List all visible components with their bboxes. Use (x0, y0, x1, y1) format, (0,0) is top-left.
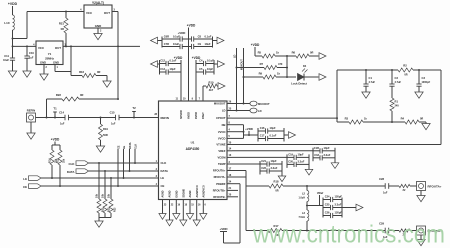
wire MUXOUT vertical (241, 48, 245, 105)
ground pulldowns (95, 221, 103, 227)
ground pin SDGND (180, 189, 188, 226)
svg-text:+VDD: +VDD (51, 138, 60, 142)
svg-text:C11: C11 (4, 54, 9, 58)
capacitor C11 left decoupling (3, 54, 15, 71)
svg-text:U1: U1 (191, 141, 195, 145)
oscillator Y2 (ALT) (80, 1, 115, 33)
svg-text:R14: R14 (49, 158, 52, 163)
svg-text:RSET: RSET (202, 112, 205, 119)
svg-text:+VDD: +VDD (178, 31, 186, 35)
resistor R22 0R bypass (46, 93, 120, 119)
IC U1 ADF4350 (154, 98, 232, 200)
svg-text:C21: C21 (261, 159, 266, 163)
svg-text:50R: 50R (103, 133, 108, 137)
node stub CLK label (134, 144, 137, 164)
svg-text:AGND: AGND (162, 190, 165, 197)
svg-text:C1: C1 (369, 76, 373, 80)
svg-text:VCC: VCC (38, 46, 45, 50)
svg-text:10pF: 10pF (271, 159, 277, 163)
wire loop filter to VTUNE (232, 70, 441, 145)
svg-text:AGND: AGND (189, 190, 192, 197)
svg-text:SDVDD: SDVDD (180, 110, 183, 119)
svg-text:1.0uH: 1.0uH (298, 197, 305, 200)
power +VDD bypass rail A (178, 24, 196, 102)
ground under REFIN connector (27, 122, 35, 139)
capacitor C10 (24, 46, 34, 71)
svg-text:10k: 10k (96, 193, 99, 198)
resistor R6 (287, 51, 319, 59)
svg-text:10pF: 10pF (207, 67, 213, 71)
svg-text:C15: C15 (110, 111, 115, 115)
svg-text:120pF: 120pF (335, 195, 343, 199)
wire RFOUTB+ stub (232, 189, 238, 191)
svg-text:R5: R5 (258, 51, 262, 55)
svg-text:10k: 10k (63, 158, 66, 163)
svg-text:470: 470 (278, 62, 283, 66)
wire CE (41, 185, 159, 187)
svg-text:VTUNE: VTUNE (216, 143, 225, 147)
svg-text:RFOUTA+: RFOUTA+ (213, 169, 226, 173)
ground pin AGNDVCO (200, 185, 207, 219)
svg-text:0R: 0R (420, 118, 423, 121)
svg-text:C10: C10 (29, 51, 34, 55)
connector RFOUTA- SMA (417, 226, 441, 235)
resistor R5 (255, 51, 288, 59)
wire +VDD rail to oscillators (12, 12, 85, 57)
svg-text:R22: R22 (56, 93, 62, 97)
net arrow left row B (151, 61, 160, 68)
wire RFOUTB- stub (232, 196, 238, 198)
svg-text:VRef: VRef (317, 191, 323, 195)
wire Y1 OUT line to reference (63, 45, 140, 47)
svg-text:+VDD: +VDD (219, 227, 228, 231)
wire VP VVCO bracket (232, 125, 250, 139)
ground under R19 (96, 146, 104, 152)
svg-text:4.7uF: 4.7uF (395, 81, 402, 84)
wire LE (41, 177, 159, 179)
capacitor group C1R C18 on VREF (313, 146, 339, 169)
resistor R13 pulldown (108, 177, 117, 218)
ground under C10 (23, 71, 31, 77)
capacitor group C19 C20 on VCOM (287, 152, 313, 175)
svg-text:10k: 10k (102, 193, 105, 198)
wire PDBRF pullup (220, 184, 240, 243)
svg-text:1uF: 1uF (383, 192, 388, 195)
power +VDD lock detect (251, 43, 260, 56)
svg-text:LE: LE (23, 177, 27, 181)
capacitor group C12 C13 (160, 59, 182, 75)
svg-text:VVCO: VVCO (218, 130, 226, 134)
capacitor group C21 C22 on TEMP (260, 159, 286, 182)
svg-text:TEMP: TEMP (218, 162, 226, 166)
resistor R16 termination (70, 45, 107, 81)
svg-text:R4: R4 (401, 117, 405, 121)
svg-text:VREF: VREF (218, 149, 226, 153)
capacitor C3 (416, 70, 430, 92)
ferrite Z3 (399, 229, 417, 237)
net arrow right row B (218, 61, 225, 68)
svg-text:CLK: CLK (134, 144, 137, 149)
svg-text:ADF4350: ADF4350 (186, 147, 200, 151)
connector RFOUTA+ SMA (417, 182, 442, 191)
ground under RFOUTA- connector (417, 235, 425, 246)
resistor R3 (337, 117, 405, 125)
svg-text:4.7uF: 4.7uF (369, 81, 376, 84)
svg-text:LD: LD (234, 54, 237, 58)
svg-text:1uF: 1uF (29, 57, 34, 60)
svg-text:C18: C18 (314, 153, 319, 157)
node stub DATA label (129, 142, 132, 172)
svg-text:+VDD: +VDD (245, 127, 253, 131)
ground under C1 (362, 92, 370, 98)
svg-text:10pF: 10pF (298, 152, 304, 156)
net arrow VVCO (289, 132, 296, 139)
node stub CE label (117, 145, 120, 187)
svg-text:R1: R1 (395, 100, 399, 104)
node VRef bias (306, 191, 323, 207)
svg-text:C24: C24 (325, 195, 330, 199)
node stub LE label (123, 145, 126, 179)
svg-text:C16: C16 (260, 126, 265, 130)
svg-text:VCOM: VCOM (217, 156, 226, 160)
svg-text:R16: R16 (79, 70, 84, 74)
svg-text:C17: C17 (260, 134, 265, 138)
svg-text:LE: LE (123, 145, 126, 149)
svg-text:R18: R18 (274, 180, 279, 184)
svg-text:RFOUTB-: RFOUTB- (213, 195, 225, 199)
svg-text:CE: CE (161, 184, 165, 188)
ground under C11 (8, 71, 16, 77)
svg-text:7.5nH: 7.5nH (298, 216, 305, 219)
svg-text:0.1uF: 0.1uF (207, 59, 214, 63)
svg-text:R6: R6 (292, 51, 296, 55)
power +VDD pullups (51, 138, 60, 146)
net arrow LED out (319, 74, 326, 81)
capacitor C2 and resistor R1 branch (389, 70, 401, 123)
resistor R12 pulldown (102, 170, 111, 218)
resistor R10 4k7 (203, 81, 218, 102)
capacitor C1 (363, 70, 375, 92)
power +VDD top-left (8, 2, 18, 15)
wire loop filter top rail (337, 69, 441, 71)
svg-text:10pF: 10pF (170, 67, 176, 71)
svg-text:GND: GND (40, 61, 46, 65)
net arrow right row A (217, 37, 224, 44)
svg-text:Lock Detect: Lock Detect (291, 82, 307, 86)
connector REFIN SMA (27, 109, 36, 123)
svg-text:C5: C5 (199, 67, 203, 71)
wire VCOM to caps (232, 156, 287, 158)
svg-text:GND: GND (95, 24, 101, 28)
svg-text:LD: LD (222, 109, 226, 113)
svg-text:0.1uF: 0.1uF (270, 134, 277, 138)
svg-text:1000pF: 1000pF (422, 81, 431, 84)
svg-text:LD: LD (258, 109, 262, 113)
svg-text:10uF: 10uF (3, 59, 9, 62)
svg-text:RFOUTB+: RFOUTB+ (213, 189, 226, 193)
svg-text:0R: 0R (404, 74, 407, 77)
svg-text:DATA: DATA (67, 170, 76, 174)
svg-text:AGNDVCO: AGNDVCO (202, 185, 205, 197)
svg-text:CLK: CLK (69, 162, 76, 166)
net arrow left row A (151, 37, 158, 44)
svg-text:R3: R3 (345, 117, 349, 121)
svg-text:MUXOUT: MUXOUT (241, 59, 244, 70)
resistor R7 (237, 62, 289, 70)
oscillator Y1 25MHz (33, 41, 66, 69)
resistor R17 (268, 224, 385, 237)
svg-text:0.1uF: 0.1uF (170, 59, 177, 63)
wire CLK (89, 162, 159, 164)
svg-text:C2: C2 (395, 76, 399, 80)
wire Y1 GND right jog (55, 65, 71, 76)
svg-text:DGND: DGND (175, 190, 178, 197)
svg-text:+VDD: +VDD (251, 43, 260, 47)
wire Y2 OUT drop to REFIN network (112, 12, 119, 100)
svg-text:AGNDVCO: AGNDVCO (196, 185, 199, 197)
svg-text:DATA: DATA (129, 142, 132, 149)
svg-text:R9: R9 (259, 72, 263, 76)
svg-text:R19: R19 (103, 127, 108, 131)
svg-text:+VDD: +VDD (8, 2, 18, 6)
wire lock detect junction column (286, 56, 288, 78)
svg-text:10pF: 10pF (324, 146, 330, 150)
capacitor C29 dc block (379, 222, 399, 240)
wire VREF to caps (232, 150, 313, 152)
wire CPOUT to loop filter (232, 70, 338, 122)
svg-text:CE: CE (117, 145, 120, 149)
inductor L10 (4, 15, 14, 30)
svg-text:C8: C8 (198, 35, 202, 39)
svg-text:25MHz: 25MHz (45, 57, 54, 61)
label Lock Detect (291, 82, 307, 86)
capacitor C14 series (59, 111, 68, 126)
ground pin DGND (173, 190, 181, 219)
wire TEMP to caps (232, 163, 260, 165)
wire RFOUTA+ staircase (232, 171, 269, 187)
svg-text:CPOUT: CPOUT (216, 116, 226, 120)
svg-text:C1R: C1R (314, 146, 319, 150)
ferrite Z2 (399, 184, 417, 192)
ground Y2 GND (94, 28, 102, 40)
capacitor group C24 C25 C26 (323, 195, 356, 219)
svg-text:0.1uF: 0.1uF (173, 35, 180, 39)
capacitor group C8 C9 (189, 35, 218, 50)
svg-text:C13: C13 (160, 67, 165, 71)
power +VDD PDBRF (219, 227, 228, 231)
ground under C3 (415, 92, 423, 98)
net arrow R10 (218, 83, 225, 90)
ground pin AGNDVCO (193, 185, 201, 226)
wire REFIN line (36, 117, 159, 119)
svg-text:GND: GND (53, 61, 59, 65)
test point T2 (132, 106, 136, 119)
capacitor group C16 C17 VVCO (258, 126, 288, 142)
resistor R4 (401, 117, 426, 125)
svg-text:R10: R10 (209, 81, 214, 85)
ground under R16 (103, 81, 111, 87)
svg-text:MUXOUT: MUXOUT (258, 102, 270, 106)
watermark www.cntronics.com (252, 221, 445, 248)
resistor R15 pullup (57, 145, 66, 187)
svg-text:C6R: C6R (164, 35, 169, 39)
power +VDD VVCO (245, 127, 258, 136)
svg-text:CLK: CLK (161, 161, 167, 165)
svg-text:REFIN: REFIN (161, 116, 169, 120)
svg-text:0R: 0R (61, 27, 64, 31)
svg-text:Y2(ALT): Y2(ALT) (92, 1, 104, 5)
connector CLK input (69, 161, 89, 166)
svg-text:C3: C3 (422, 76, 426, 80)
connector CE input (23, 184, 41, 189)
svg-text:120pF: 120pF (335, 211, 343, 215)
wire DATA (89, 170, 159, 172)
power +VDD bypass rail B right (192, 56, 201, 101)
svg-text:C26: C26 (325, 211, 330, 215)
svg-text:PDBRF: PDBRF (216, 182, 226, 186)
LED D4 lock detect (298, 65, 319, 81)
svg-text:C22: C22 (261, 166, 266, 170)
svg-text:3.3uF: 3.3uF (324, 153, 331, 157)
connector DATA input (67, 169, 89, 174)
svg-text:LE: LE (161, 176, 165, 180)
svg-text:10k: 10k (108, 193, 111, 198)
capacitor C28 dc block (379, 177, 399, 195)
svg-text:C14: C14 (59, 111, 64, 115)
svg-text:DB: DB (222, 123, 226, 127)
svg-text:OUT: OUT (104, 11, 110, 15)
svg-text:MUXOUT: MUXOUT (214, 102, 226, 106)
svg-text:Y1: Y1 (48, 52, 52, 56)
svg-text:L10: L10 (4, 21, 10, 25)
capacitor C15 series (110, 111, 119, 126)
node LD oval label (232, 108, 262, 113)
wire RFOUTA- staircase (232, 177, 268, 231)
svg-text:0R: 0R (310, 51, 313, 55)
svg-text:10uF: 10uF (173, 42, 179, 46)
svg-text:T2: T2 (132, 106, 136, 110)
ground under RFOUTA+ connector (417, 191, 425, 202)
svg-text:1uF: 1uF (60, 123, 65, 126)
wire Y1 GND left to ground (40, 65, 48, 81)
svg-text:4k7: 4k7 (209, 88, 214, 92)
svg-text:0R: 0R (97, 70, 100, 74)
svg-text:VCC: VCC (86, 11, 93, 15)
svg-text:AVDD: AVDD (188, 112, 191, 119)
svg-text:C7R: C7R (164, 42, 169, 46)
ground pin AGND (186, 190, 194, 219)
svg-text:0R: 0R (80, 93, 83, 97)
resistor R19 50R to ground (99, 117, 109, 147)
svg-text:RFOUTA-: RFOUTA- (214, 175, 226, 179)
svg-text:R7: R7 (260, 62, 264, 66)
svg-text:DATA: DATA (161, 169, 168, 173)
svg-text:+VDD: +VDD (187, 24, 196, 28)
svg-text:SDGND: SDGND (182, 189, 185, 198)
wire pulldown common (99, 218, 111, 222)
svg-text:C4: C4 (199, 59, 203, 63)
svg-text:1uF: 1uF (111, 123, 116, 126)
svg-text:AGND: AGND (169, 190, 172, 197)
resistor R18 (269, 180, 385, 193)
capacitor group C6R C7R (158, 35, 189, 50)
svg-text:240: 240 (395, 105, 400, 108)
node MUXOUT oval label (232, 101, 270, 106)
svg-text:OUT: OUT (55, 46, 61, 50)
svg-text:3.3uF: 3.3uF (335, 203, 342, 207)
resistor R14 pullup (49, 145, 58, 179)
svg-text:C19: C19 (288, 152, 293, 156)
svg-text:www.cntronics.com: www.cntronics.com (252, 221, 445, 248)
svg-text:3.3uF: 3.3uF (298, 159, 305, 163)
ground pin AGND (159, 190, 167, 219)
inductor L2 bias (298, 185, 308, 206)
wire LD vertical (234, 48, 238, 112)
resistor R9 (244, 72, 297, 80)
svg-text:C12: C12 (160, 59, 165, 63)
svg-text:R13: R13 (114, 207, 117, 212)
svg-text:CE: CE (23, 185, 27, 189)
resistor R11 pulldown (96, 162, 105, 218)
svg-text:10uF: 10uF (205, 42, 211, 46)
svg-text:C20: C20 (288, 159, 293, 163)
svg-text:R2: R2 (403, 64, 407, 68)
net arrow VRef caps (356, 204, 363, 211)
resistor R21 (59, 11, 68, 48)
svg-text:0R: 0R (275, 190, 278, 193)
svg-text:REFIN: REFIN (27, 109, 35, 113)
inductor L3 bias (298, 206, 308, 232)
svg-text:C25: C25 (325, 203, 330, 207)
svg-text:RFOUTA+: RFOUTA+ (428, 185, 442, 189)
svg-text:R21: R21 (59, 22, 65, 26)
net arrow R6 out (319, 53, 326, 60)
power +VDD bypass rail B left (174, 56, 183, 101)
svg-text:R15: R15 (57, 158, 60, 163)
svg-text:VVCO: VVCO (218, 137, 226, 141)
svg-text:3.3uF: 3.3uF (271, 166, 278, 170)
capacitor group C4 C5 (196, 59, 218, 75)
svg-text:10pF: 10pF (270, 126, 276, 130)
svg-text:C9: C9 (198, 42, 202, 46)
svg-text:C28: C28 (379, 177, 384, 181)
test point T1 (53, 107, 57, 119)
svg-text:0.1uF: 0.1uF (205, 35, 212, 39)
resistor R2 (398, 64, 413, 77)
ground pin AGND (166, 190, 174, 226)
svg-text:DVDD: DVDD (195, 112, 198, 119)
connector LE input (23, 176, 41, 181)
svg-text:T1: T1 (53, 107, 57, 111)
ground after R4 (422, 124, 430, 130)
